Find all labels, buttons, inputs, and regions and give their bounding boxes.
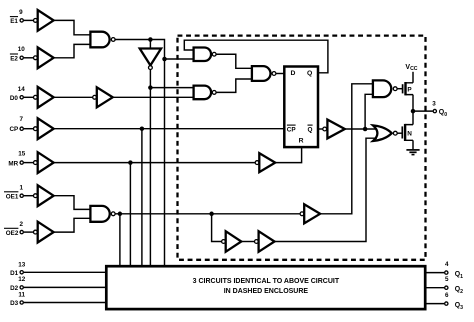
node E-AND branch (148, 85, 153, 90)
svg-text:Q: Q (307, 70, 312, 77)
wire E2 buffer to NAND (54, 44, 91, 57)
svg-text:12: 12 (18, 276, 26, 283)
net label E1 (active low) (10, 17, 18, 25)
svg-text:MR: MR (8, 160, 18, 167)
svg-text:P: P (407, 87, 412, 94)
svg-text:CP: CP (9, 126, 18, 133)
wire P drain to output node (412, 95, 414, 112)
svg-text:IN DASHED ENCLOSURE: IN DASHED ENCLOSURE (224, 288, 309, 295)
svg-text:R: R (299, 138, 304, 145)
wire OE1 terminal to buffer (24, 195, 34, 197)
buffer MR (bubble) (34, 152, 54, 173)
svg-text:D0: D0 (10, 95, 19, 102)
wire inverter output drop (149, 70, 151, 267)
net label E2 (active low) (10, 54, 18, 62)
wire D1 to box (24, 271, 107, 273)
svg-text:4: 4 (445, 261, 449, 268)
terminal E2 pin 10 (20, 56, 23, 59)
wire Q1 from box (425, 272, 444, 274)
inverter (down-pointing) E-AND (140, 49, 161, 70)
svg-text:D: D (290, 70, 295, 77)
wire output node to terminal (413, 110, 433, 112)
net label OE2 (active low) (4, 228, 19, 237)
svg-text:E2: E2 (10, 55, 18, 62)
wire Q feedback to NAND1 (184, 40, 328, 73)
node Q-bar branch (363, 127, 368, 132)
NAND gate P-driver (373, 80, 397, 97)
wire MR terminal to buffer (24, 162, 34, 164)
wire E-NAND branch to NAND1 (165, 58, 194, 60)
dashed enclosure (178, 36, 426, 260)
svg-text:5: 5 (445, 276, 449, 283)
buffer E2 input (bubble) (34, 47, 54, 68)
NAND gate E1/E2 (90, 32, 115, 48)
node E-NAND output to inverter (148, 37, 153, 42)
svg-text:N: N (407, 130, 412, 137)
terminal D1 pin 13 (20, 271, 23, 274)
terminal Q2 pin 5 (445, 286, 448, 289)
wire VCC stem (412, 72, 414, 83)
svg-text:OE1: OE1 (6, 193, 19, 200)
wire NAND1 output to NAND3 (216, 54, 252, 68)
NAND gate 2 (data enable) (194, 86, 217, 100)
svg-text:OE2: OE2 (6, 230, 19, 237)
wire R buffer to flip-flop R (275, 147, 301, 163)
wire MR to R buffer (54, 162, 256, 164)
wire E-NAND branch node (162, 57, 167, 62)
wire D2 to box (24, 286, 107, 288)
wire E-AND branch to NAND2 (150, 87, 193, 89)
NAND gate OE1/OE2 (90, 206, 115, 222)
svg-text:3 CIRCUITS IDENTICAL TO ABOVE: 3 CIRCUITS IDENTICAL TO ABOVE CIRCUIT (193, 278, 340, 285)
wire E1 buffer to NAND (54, 20, 91, 34)
svg-text:CP: CP (287, 127, 297, 134)
buffer E1 input (bubble) (34, 10, 54, 31)
svg-text:2: 2 (19, 221, 23, 228)
NOR gate N-driver (373, 125, 397, 141)
flip-flop U1 (284, 67, 318, 148)
terminal Q0 pin 3 (433, 109, 436, 112)
wire N source to ground (412, 140, 414, 149)
buffer Q-bar (bubble) (323, 120, 345, 139)
wire Q-bar buffer to NOR (345, 128, 377, 130)
net label OE1 (active low) (4, 192, 19, 201)
buffer OE inverter B2 (bubble) (255, 231, 275, 252)
buffer OE inverter B1 (bubble) (222, 231, 242, 252)
wire Q3 from box (425, 303, 444, 305)
ground (406, 150, 419, 155)
wire E2 terminal to buffer (24, 57, 34, 59)
buffer OE inverter A (bubble) (300, 204, 320, 223)
svg-text:9: 9 (19, 9, 23, 16)
wire Q2 from box (425, 287, 444, 289)
transistor N (NMOS) (402, 124, 413, 141)
terminal OE2 pin 2 (20, 230, 23, 233)
wire Q-bar branch up to NAND-P (365, 94, 373, 129)
wire NOR output to N gate (398, 132, 403, 134)
terminal D0 pin 14 (20, 96, 23, 99)
node output Q0 (411, 109, 416, 114)
terminal CP pin 7 (20, 127, 23, 130)
wire B1 to B2 (241, 241, 254, 243)
wire CP terminal to buffer (24, 128, 34, 130)
node MR drop (128, 160, 133, 165)
wire OE drop to box (119, 214, 121, 266)
svg-text:11: 11 (18, 291, 25, 298)
buffer OE2 (bubble) (34, 222, 54, 243)
wire MR drop to box (129, 163, 131, 267)
wire NAND3 output to D (276, 73, 284, 75)
terminal D2 pin 12 (20, 286, 23, 289)
terminal Q1 pin 4 (445, 271, 448, 274)
buffer R input (bubble) (255, 153, 275, 172)
svg-text:1: 1 (19, 184, 23, 191)
wire Q-bar to buffer (318, 128, 323, 130)
svg-text:13: 13 (18, 261, 26, 268)
wire D3 to box (24, 302, 107, 304)
wire E1 terminal to buffer (24, 19, 34, 21)
svg-text:6: 6 (445, 292, 449, 299)
buffer CP (bubble) (34, 118, 54, 139)
transistor P (PMOS) (403, 82, 413, 95)
svg-text:15: 15 (18, 151, 26, 158)
box: 3 identical circuits (106, 266, 425, 309)
NAND gate 3 (to D input) (252, 66, 276, 81)
buffer D0 second (bubble) (93, 87, 113, 107)
wire output node to N drain (412, 111, 414, 125)
buffer OE1 (bubble) (34, 185, 54, 206)
node CP drop (140, 126, 145, 131)
wire OE1 buffer to NAND (54, 196, 91, 210)
wire D0 to NAND2 (113, 96, 194, 98)
svg-text:D3: D3 (10, 300, 19, 307)
svg-text:3: 3 (432, 101, 436, 108)
svg-text:14: 14 (18, 86, 26, 93)
wire D0 between buffers (54, 96, 93, 98)
wire NAND-P output to P gate (397, 88, 402, 90)
terminal E1 pin 9 (20, 19, 23, 22)
wire inverter A to NAND-P (320, 84, 373, 214)
wire CP drop to box (141, 129, 143, 267)
terminal Q3 pin 6 (445, 302, 448, 305)
terminal D3 pin 11 (20, 301, 23, 304)
wire NAND2 output to NAND3 (216, 79, 252, 92)
terminal MR pin 15 (20, 161, 23, 164)
wire E-NAND output to vertical drop (115, 40, 164, 267)
svg-text:10: 10 (18, 46, 26, 53)
terminal OE1 pin 1 (20, 194, 23, 197)
wire OE-NAND output (115, 213, 300, 215)
wire OE branch down to inverter B1 (212, 214, 222, 242)
wire CP to flip-flop (54, 128, 285, 130)
wire node to inverter input (149, 40, 151, 49)
wire OE2 buffer to NAND (54, 218, 91, 232)
wire OE2 terminal to buffer (24, 231, 34, 233)
node OE branch (209, 212, 214, 217)
wire B2 to NOR lower input (275, 138, 378, 241)
svg-text:Q: Q (308, 127, 313, 134)
node OE drop (118, 212, 123, 217)
svg-text:7: 7 (19, 116, 23, 123)
wire D0 terminal to buffer (24, 96, 34, 98)
NAND gate 1 (feedback/data select) (194, 48, 217, 62)
svg-text:E1: E1 (10, 18, 18, 25)
buffer D0 first (bubble) (34, 87, 54, 108)
